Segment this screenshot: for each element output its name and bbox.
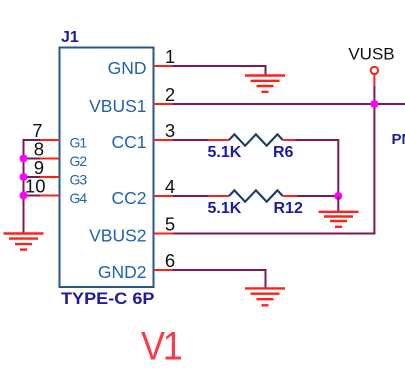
power port VUSB stub [373, 75, 375, 87]
connector J1 body [60, 48, 154, 288]
svg-text:GND2: GND2 [98, 262, 147, 282]
svg-text:J1: J1 [61, 29, 79, 46]
svg-text:CC1: CC1 [111, 132, 146, 152]
svg-text:TYPE-C 6P: TYPE-C 6P [61, 289, 155, 308]
pin 7 stub [40, 139, 60, 141]
wire pin3 to R6 [173, 139, 208, 141]
wire VBUS1 net [173, 103, 405, 105]
svg-text:VBUS2: VBUS2 [89, 225, 146, 245]
power port VUSB circle [371, 67, 378, 74]
pin 1 GND stub [154, 65, 174, 67]
svg-text:5.1K: 5.1K [208, 200, 242, 217]
pin 6 GND2 stub [154, 269, 174, 271]
pin 3 CC1 stub [154, 139, 174, 141]
ground (pin 1) [245, 76, 285, 92]
junction dot (pin 10) [20, 192, 28, 200]
resistor R6 [208, 134, 296, 145]
svg-text:VUSB: VUSB [348, 45, 394, 64]
svg-text:R12: R12 [274, 200, 303, 217]
svg-text:R6: R6 [273, 144, 294, 161]
svg-text:G2: G2 [70, 153, 88, 169]
wire VUSB rail [373, 86, 375, 234]
wire R12 to junction [298, 195, 339, 197]
junction dot (VUSB/VBUS1) [370, 100, 378, 108]
svg-text:6: 6 [165, 250, 175, 271]
pin 2 VBUS1 stub [154, 103, 174, 105]
svg-text:V1: V1 [141, 325, 182, 369]
wire junction to ground [337, 196, 339, 212]
svg-text:PMID: PMID [392, 131, 405, 148]
resistor R12 [208, 190, 298, 201]
svg-text:3: 3 [165, 120, 175, 141]
pin 10 stub [40, 195, 60, 197]
junction dot (R12/ground) [334, 192, 342, 200]
pin 4 CC2 stub [154, 195, 174, 197]
wire pin4 to R12 [173, 195, 208, 197]
junction dot (pin 8) [20, 155, 28, 163]
svg-text:4: 4 [165, 176, 175, 197]
svg-text:1: 1 [165, 46, 175, 67]
svg-text:VBUS1: VBUS1 [89, 96, 146, 116]
wire pin6 to ground [173, 270, 266, 288]
pin 8 stub [40, 158, 60, 160]
svg-text:G3: G3 [70, 172, 88, 188]
wire left bus [24, 140, 41, 234]
svg-text:CC2: CC2 [111, 188, 146, 208]
svg-text:G4: G4 [70, 190, 88, 206]
wire pin1 to ground [173, 66, 266, 76]
svg-text:2: 2 [165, 84, 175, 105]
ground (pin 6) [245, 288, 285, 305]
pin 5 VBUS2 stub [154, 233, 174, 235]
svg-text:5: 5 [165, 214, 175, 235]
ground (CC net) [319, 212, 359, 227]
junction dot (pin 9) [20, 173, 28, 181]
wire R6 to junction [296, 140, 339, 196]
ground (left bus) [4, 234, 44, 250]
svg-text:5.1K: 5.1K [208, 144, 242, 161]
svg-text:10: 10 [25, 176, 46, 197]
svg-text:GND: GND [108, 58, 147, 78]
pin 9 stub [40, 176, 60, 178]
wire VBUS2 to VUSB rail [173, 233, 376, 235]
svg-text:G1: G1 [70, 135, 88, 151]
